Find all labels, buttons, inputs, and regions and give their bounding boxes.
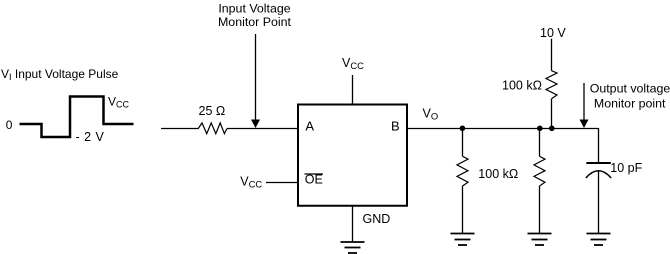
ground symbol under R2	[451, 234, 475, 246]
resistor R3 100 kohm	[534, 156, 545, 186]
input voltage monitor point arrow	[255, 34, 257, 121]
node junction dot 2	[537, 126, 543, 132]
wire: node to resistor R2	[462, 128, 464, 156]
wire: resistor to IC pin A	[227, 128, 298, 130]
svg-text:Monitor point: Monitor point	[594, 96, 666, 110]
output voltage monitor point arrow	[583, 83, 585, 121]
wire: pin B output net	[407, 128, 599, 130]
svg-text:10 V: 10 V	[540, 26, 566, 40]
wire: C1 to ground	[598, 171, 600, 234]
wire: 10V to resistor R4	[551, 39, 553, 71]
node junction dot 3	[549, 126, 555, 132]
wire: R4 to output node	[551, 99, 553, 128]
svg-text:B: B	[391, 119, 400, 134]
wire: node to resistor R3	[539, 128, 541, 156]
GND stub below IC	[352, 206, 354, 242]
wire: R2 to ground	[462, 186, 464, 234]
svg-text:100 kΩ: 100 kΩ	[502, 79, 542, 93]
ground symbol under C1	[587, 234, 611, 246]
svg-text:A: A	[305, 119, 314, 134]
svg-text:OE: OE	[305, 173, 323, 187]
wire: R3 to ground	[539, 186, 541, 234]
svg-text:- 2 V: - 2 V	[76, 130, 105, 144]
ground symbol below IC	[341, 242, 365, 253]
wire: input to resistor	[161, 128, 199, 130]
svg-text:100 kΩ: 100 kΩ	[478, 167, 518, 181]
svg-text:Output voltage: Output voltage	[590, 82, 670, 96]
IC buffer U1 box	[298, 105, 407, 206]
ground symbol under R3	[528, 234, 552, 246]
svg-text:Input Voltage: Input Voltage	[218, 2, 290, 16]
svg-text:VI Input Voltage Pulse: VI Input Voltage Pulse	[1, 67, 119, 82]
svg-text:10 pF: 10 pF	[610, 161, 642, 175]
svg-text:GND: GND	[363, 212, 391, 226]
wire: output corner down to capacitor C1	[598, 128, 600, 163]
input pulse waveform	[20, 97, 134, 138]
resistor R 25 ohm	[198, 123, 227, 134]
VCC supply stub on top of IC	[352, 75, 354, 104]
node junction dot 1	[460, 126, 466, 132]
capacitor C1 10 pF	[586, 162, 611, 164]
svg-text:0: 0	[6, 118, 13, 132]
resistor R2 100 kohm	[457, 156, 468, 186]
svg-text:25 Ω: 25 Ω	[199, 104, 226, 118]
svg-text:Monitor Point: Monitor Point	[218, 15, 292, 29]
resistor R4 100 kohm pullup	[546, 71, 557, 99]
wire: VCC to OE pin	[266, 182, 298, 184]
